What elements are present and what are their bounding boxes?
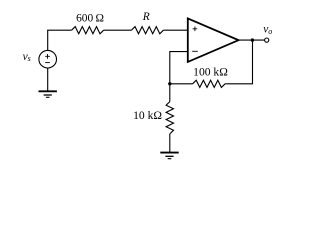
terminal vo open circle	[265, 38, 269, 42]
voltage source vs circle	[39, 50, 57, 68]
wire: between 600ohm and R	[104, 29, 132, 31]
resistor 100k zigzag	[193, 80, 226, 87]
wire: 100k right then up to output	[225, 40, 252, 84]
wire: node down to 10k resistor	[169, 84, 171, 102]
wire: R to op-amp plus input	[163, 29, 187, 31]
resistor R zigzag	[131, 27, 163, 34]
node junction dot at output	[251, 38, 254, 41]
ground under source	[39, 91, 57, 97]
svg-text:600 Ω: 600 Ω	[76, 12, 104, 24]
minus sign inside source	[45, 62, 50, 64]
wire: 10k to ground	[169, 134, 171, 152]
node junction dot at inverting branch	[168, 82, 171, 85]
op-amp plus input marker	[193, 27, 198, 32]
op-amp U1 triangle	[188, 18, 239, 62]
wire: feedback bottom from node to 100k	[170, 83, 193, 85]
op-amp minus input marker	[192, 50, 198, 52]
resistor 10k vertical zigzag	[166, 102, 173, 134]
resistor 600ohm zigzag	[72, 27, 104, 34]
svg-text:10 kΩ: 10 kΩ	[133, 109, 162, 122]
svg-text:R: R	[142, 11, 150, 23]
wire: top left corner from source to 600ohm	[48, 30, 72, 50]
ground under 10k	[160, 153, 178, 159]
plus sign inside source	[45, 54, 50, 59]
wire: op-amp output	[239, 39, 265, 41]
svg-text:100 kΩ: 100 kΩ	[193, 66, 228, 79]
wire: source to ground	[47, 68, 49, 91]
wire: inverting input horizontal	[170, 52, 188, 84]
